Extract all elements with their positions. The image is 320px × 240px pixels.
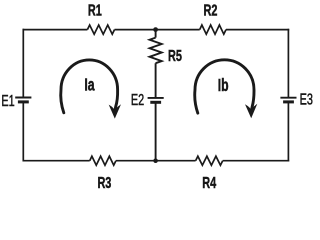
wire bottom-left (E1 bottom to R3) (23, 160, 90, 162)
svg-text:E3: E3 (300, 90, 313, 108)
wire middle top stub (node to R5) (155, 30, 157, 38)
mesh current arrow Ib (195, 60, 258, 118)
wire bottom-middle (R3 to R4 through node) (116, 160, 196, 162)
svg-text:R4: R4 (202, 174, 216, 192)
battery E2 (148, 98, 164, 102)
wire middle lower (E2 to bottom node) (155, 102, 157, 160)
wire top-middle (R1 to R2 through node) (115, 29, 200, 31)
resistor R2 (200, 25, 226, 34)
svg-text:E1: E1 (1, 92, 14, 110)
wire top-right (R2 to E3 top) (226, 29, 289, 31)
wire left lower (E1 to bottom wire) (22, 102, 24, 162)
svg-text:R1: R1 (88, 2, 102, 20)
battery E1 (15, 98, 31, 102)
resistor R5 (150, 38, 162, 64)
wire right lower (E3 to bottom wire) (287, 102, 289, 162)
svg-text:Ia: Ia (84, 75, 95, 95)
wire left upper (top wire to E1) (22, 29, 24, 98)
svg-text:Ib: Ib (218, 76, 229, 96)
mesh current arrow Ia (61, 60, 121, 119)
svg-text:R2: R2 (204, 2, 218, 20)
wire top-left (E1 top to R1) (23, 29, 88, 31)
wire middle (R5 to E2) (155, 63, 157, 98)
node top-middle junction dot (153, 27, 158, 32)
svg-text:R5: R5 (168, 47, 182, 65)
wire bottom-right (R4 to E3 bottom) (223, 160, 290, 162)
resistor R3 (90, 156, 116, 165)
resistor R4 (196, 156, 223, 165)
resistor R1 (87, 25, 114, 34)
wire right upper (top wire to E3) (287, 29, 289, 98)
battery E3 (280, 98, 296, 102)
svg-text:R3: R3 (97, 174, 111, 192)
node bottom-middle junction dot (153, 158, 158, 163)
svg-text:E2: E2 (131, 91, 144, 109)
